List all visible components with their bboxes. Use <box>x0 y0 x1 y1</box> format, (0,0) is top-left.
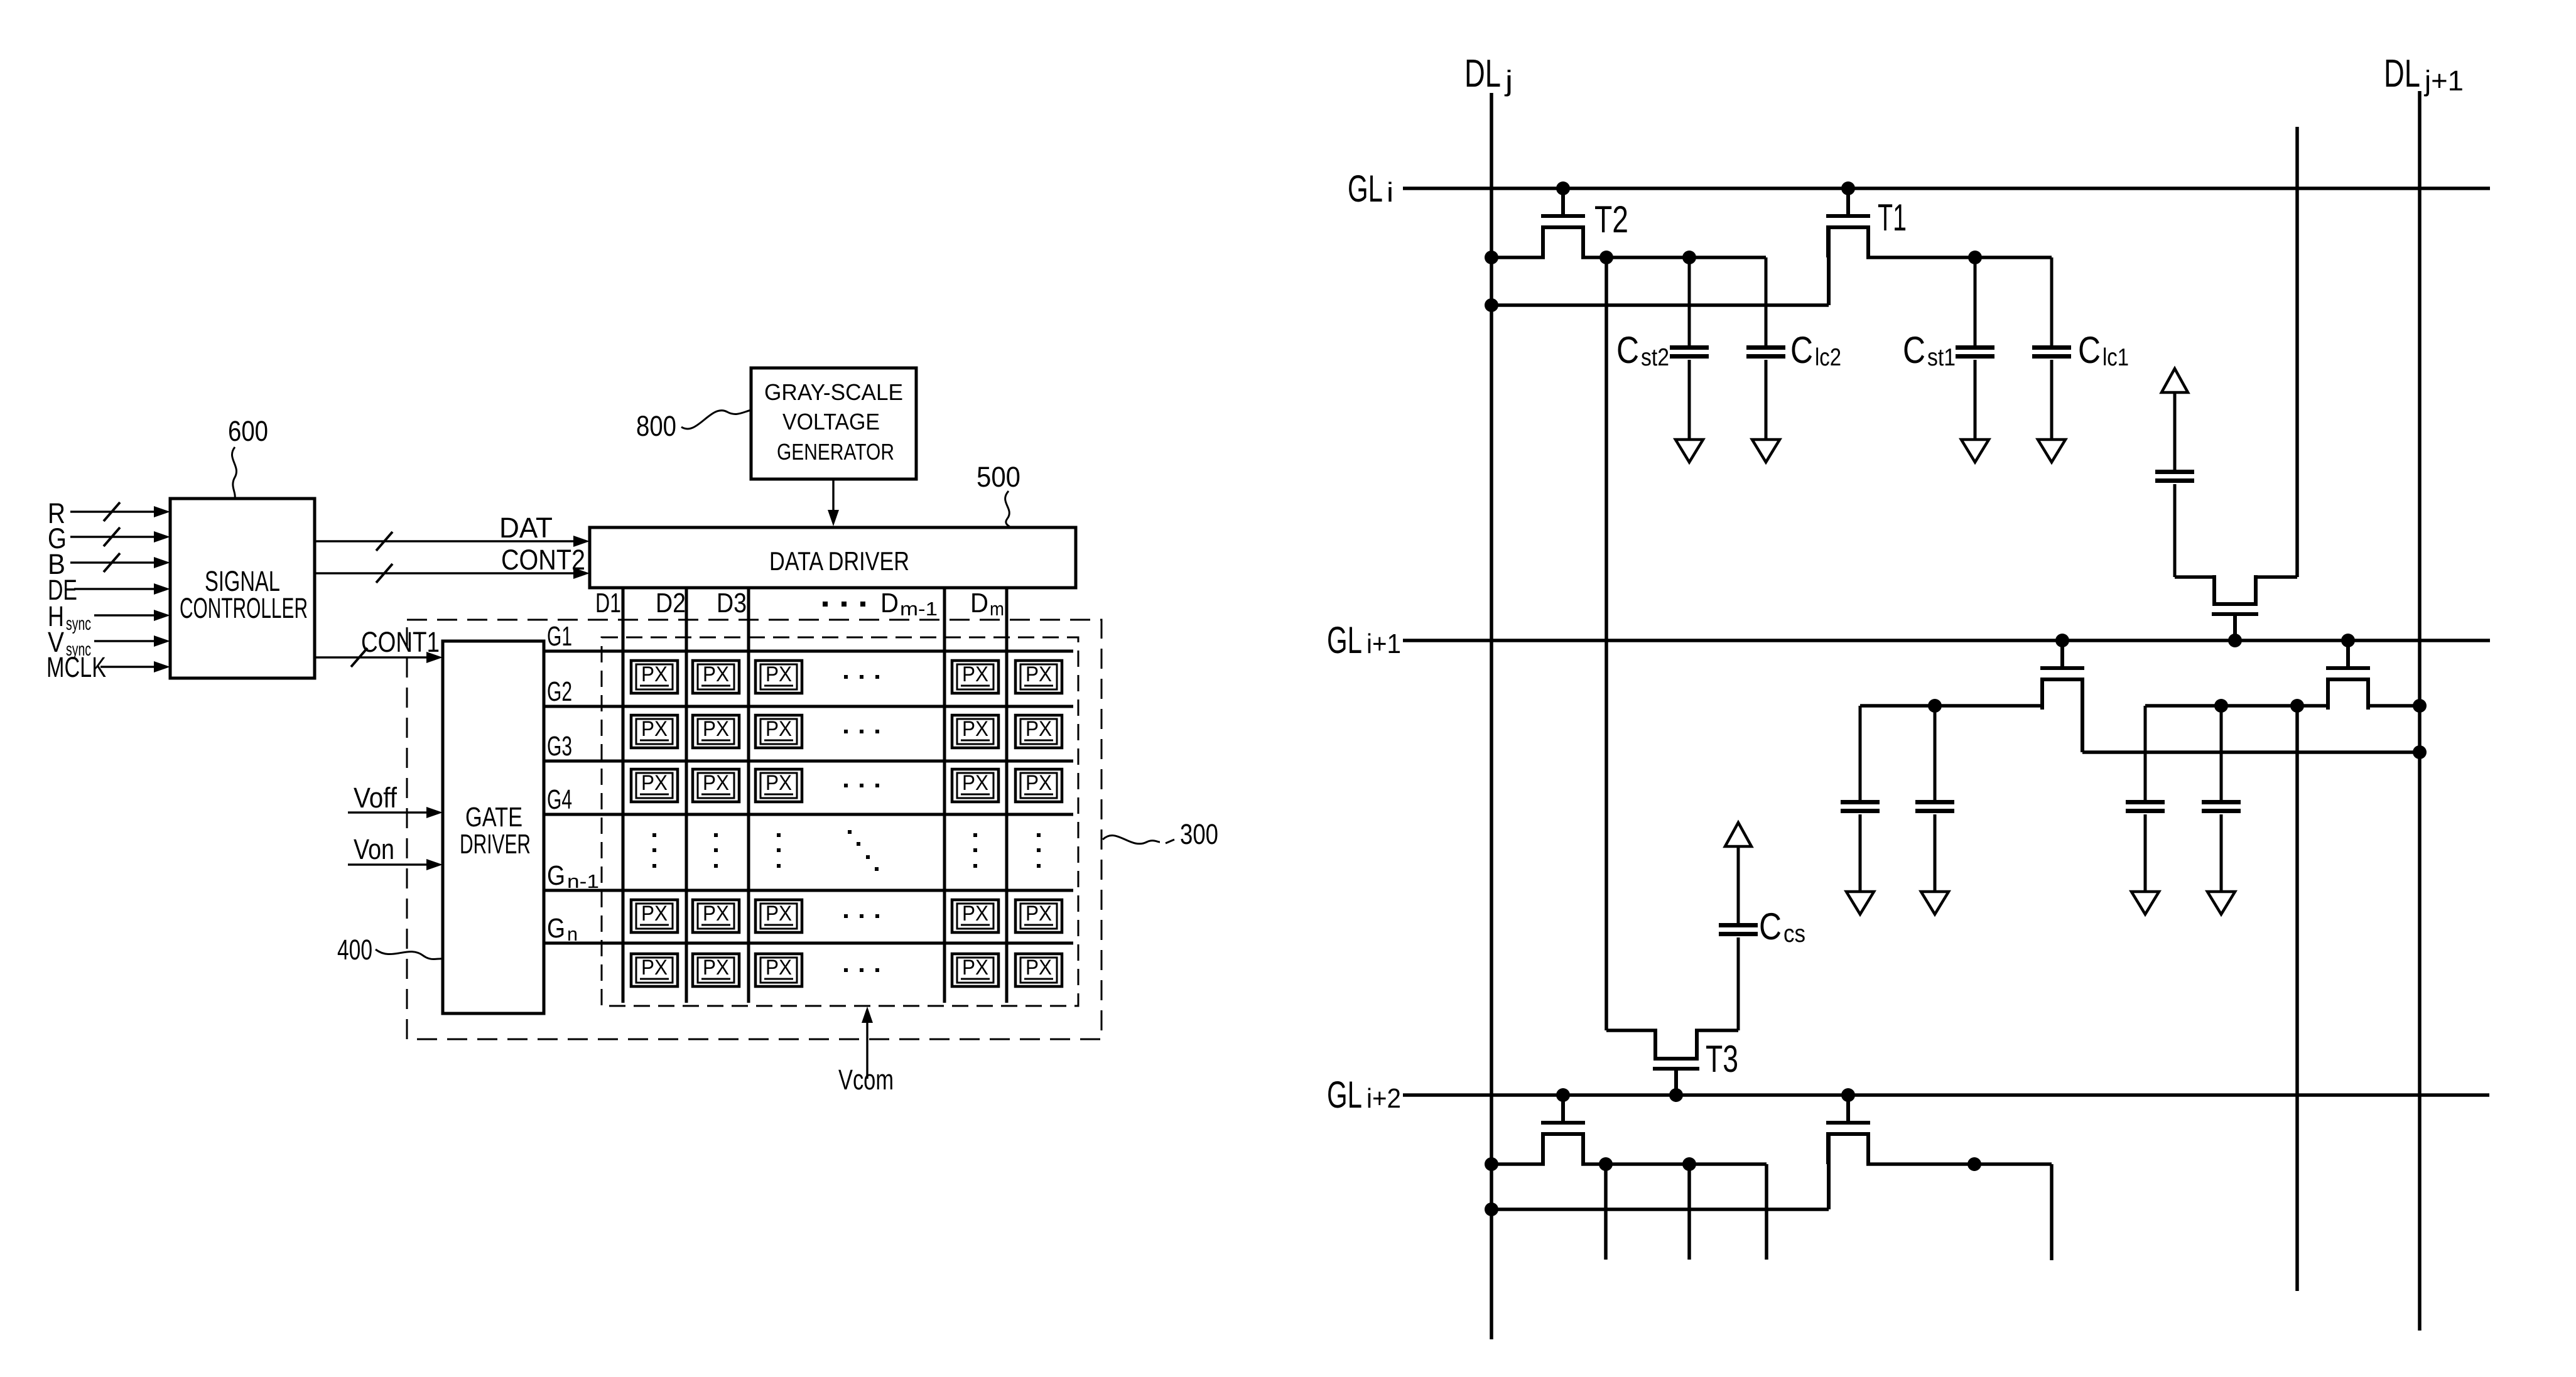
svg-text:PX: PX <box>703 902 729 926</box>
node dot mirrored transistor gate on GLi+1 <box>2228 634 2242 647</box>
svg-text:lc1: lc1 <box>2102 344 2129 371</box>
transistor above GLi+1 right column (mirrored) <box>2233 616 2237 640</box>
transistor T3 <box>1674 1071 1678 1095</box>
wire T3 right terminal <box>1695 1029 1738 1032</box>
svg-text:Voff: Voff <box>354 782 397 814</box>
pixel PX row1 col2 <box>693 661 739 693</box>
wire T1 drain to Clc1 <box>1866 256 2052 259</box>
ellipsis between D3 and Dm-1 <box>823 602 828 607</box>
svg-text:D: D <box>880 588 899 618</box>
leader squiggle 300 <box>1103 836 1160 844</box>
gate line G2 wire <box>544 705 1073 708</box>
svg-text:st1: st1 <box>1927 344 1956 371</box>
svg-text:400: 400 <box>337 934 372 966</box>
svg-text:D3: D3 <box>717 588 747 618</box>
pixel PX row4 col3 <box>755 900 802 932</box>
svg-text:PX: PX <box>962 902 988 926</box>
pixel PX row2 col4 <box>952 715 998 748</box>
svg-text:C: C <box>1759 905 1782 948</box>
data line Dm wire <box>1005 587 1009 1003</box>
node dot cap tap right <box>2214 699 2228 713</box>
svg-text:GRAY-SCALE: GRAY-SCALE <box>764 379 903 405</box>
svg-text:PX: PX <box>962 662 988 686</box>
wire Voff into gate driver <box>348 811 427 813</box>
wire right transistor source leg down <box>1827 1134 1831 1209</box>
wire left-column i+1 source to DLj+1 <box>2082 750 2420 754</box>
wire pixel node vertical to T3 <box>1605 257 1608 1030</box>
column ellipsis dots col4 <box>973 833 977 837</box>
svg-text:i: i <box>1387 177 1394 208</box>
pixel PX row5 col3 <box>755 954 802 986</box>
svg-text:DL: DL <box>1464 52 1501 95</box>
wire DLj to T1 source lower <box>1491 303 1829 307</box>
wire DLj to GLi+2 transistor source <box>1491 1162 1545 1166</box>
capacitor lc left-column i+1 <box>1934 706 1937 800</box>
row ellipsis dots row3 <box>844 784 848 787</box>
node dot gate on GLi+2 left <box>1556 1088 1570 1102</box>
node dot bottom cap tap <box>1682 1157 1696 1171</box>
pixel PX row2 col5 <box>1015 715 1062 748</box>
svg-text:C: C <box>2078 329 2101 371</box>
pixel PX row4 col1 <box>631 900 678 932</box>
svg-text:PX: PX <box>703 771 729 795</box>
wire T3 left terminal <box>1606 1029 1657 1032</box>
svg-text:G1: G1 <box>547 621 572 652</box>
transistor at GLi+2 right <box>1846 1095 1850 1121</box>
svg-text:C: C <box>1616 329 1639 371</box>
gate line GLi wire <box>1403 186 2490 190</box>
node dot on DLj+1 upper <box>2413 699 2427 713</box>
wire DLj to T2 source <box>1491 256 1545 259</box>
bus slash on B line <box>104 553 120 572</box>
svg-text:D1: D1 <box>595 588 621 618</box>
svg-text:PX: PX <box>641 662 668 686</box>
node dot DLj upper <box>1485 251 1498 264</box>
pixel PX row1 col1 <box>631 661 678 693</box>
pixel PX row5 col4 <box>952 954 998 986</box>
wire GLi+2 right transistor drain <box>1866 1162 2052 1166</box>
svg-text:PX: PX <box>1026 902 1052 926</box>
gate line G4 wire <box>544 813 1073 816</box>
capacitor lc right-column i+1 <box>2144 706 2147 800</box>
leader squiggle 600 <box>232 447 236 498</box>
ground symbol <box>1921 892 1949 914</box>
svg-text:G2: G2 <box>547 676 572 707</box>
column ellipsis dots col1 <box>652 833 656 837</box>
svg-text:GATE: GATE <box>465 802 522 833</box>
gate driver U400 box <box>443 641 544 1013</box>
wire CONT1 signal-controller to gate-driver <box>315 656 427 658</box>
data driver U500 box <box>590 527 1076 588</box>
ground below Cst2 <box>1675 440 1703 462</box>
svg-text:j+1: j+1 <box>2423 65 2464 97</box>
node dot T2 gate on GLi <box>1556 181 1570 195</box>
svg-text:m: m <box>990 598 1004 620</box>
stub wire bottom cap 2 <box>1765 1164 1768 1260</box>
wire input R into signal controller <box>70 510 156 512</box>
node dot T3 gate on GLi+2 <box>1669 1088 1683 1102</box>
leader squiggle 800 <box>681 410 751 429</box>
svg-text:CONT1: CONT1 <box>361 626 440 658</box>
svg-text:PX: PX <box>1026 956 1052 980</box>
node dot DLj lower <box>1485 298 1498 312</box>
wire left-column i+1 drain to caps <box>1860 704 2044 708</box>
svg-text:G3: G3 <box>547 731 572 762</box>
gate line GLi+2 wire <box>1403 1093 2489 1097</box>
pixel PX row3 col5 <box>1015 769 1062 802</box>
svg-text:st2: st2 <box>1641 344 1669 371</box>
bus slash on DAT <box>376 532 392 551</box>
pixel PX row1 col3 <box>755 661 802 693</box>
svg-text:lc2: lc2 <box>1815 344 1841 371</box>
wire input B into signal controller <box>70 561 156 563</box>
pixel PX row2 col2 <box>693 715 739 748</box>
gate line Gn-1 wire <box>544 889 1073 892</box>
wire T2 drain to pixel node <box>1581 256 1766 259</box>
arrow to common electrode above Ccs <box>1725 823 1751 846</box>
svg-text:PX: PX <box>1026 771 1052 795</box>
capacitor Clc2 <box>1765 257 1768 345</box>
svg-text:PX: PX <box>766 771 792 795</box>
svg-text:m-1: m-1 <box>900 598 938 620</box>
column ellipsis dots col2 <box>714 833 718 837</box>
svg-text:i+2: i+2 <box>1366 1083 1401 1114</box>
svg-text:T3: T3 <box>1706 1038 1738 1080</box>
svg-text:G: G <box>547 913 565 944</box>
svg-text:cs: cs <box>1783 921 1805 948</box>
svg-text:GL: GL <box>1327 619 1362 661</box>
svg-text:CONT2: CONT2 <box>501 544 585 576</box>
pixel PX row4 col4 <box>952 900 998 932</box>
svg-text:PX: PX <box>641 771 668 795</box>
svg-text:PX: PX <box>962 956 988 980</box>
arrow Vcom into array <box>866 1022 868 1079</box>
svg-text:GL: GL <box>1348 168 1383 210</box>
svg-text:DL: DL <box>2384 52 2420 95</box>
leader squiggle 500 <box>1005 491 1010 527</box>
signal controller U600 box <box>170 499 315 678</box>
pixel PX row3 col2 <box>693 769 739 802</box>
svg-text:PX: PX <box>962 771 988 795</box>
gate line GLi+1 wire <box>1403 639 2490 642</box>
node dot cap tap <box>1928 699 1942 713</box>
inner dashed boundary of pixel array <box>602 637 1078 1006</box>
column ellipsis dots col5 <box>1037 833 1041 837</box>
outer dashed boundary 300 of panel <box>407 620 1101 1039</box>
ground below Clc2 <box>1752 440 1780 462</box>
svg-text:G4: G4 <box>547 784 572 815</box>
svg-text:DATA DRIVER: DATA DRIVER <box>769 546 909 576</box>
node dot DLj bottom lower <box>1485 1202 1498 1216</box>
node dot T1 gate on GLi <box>1841 181 1855 195</box>
svg-text:j: j <box>1504 65 1513 97</box>
svg-text:C: C <box>1790 329 1813 371</box>
svg-text:C: C <box>1903 329 1925 371</box>
svg-text:CONTROLLER: CONTROLLER <box>180 592 308 624</box>
pixel PX row5 col2 <box>693 954 739 986</box>
bus slash on G line <box>104 527 120 546</box>
ground symbol <box>1846 892 1874 914</box>
capacitor of row-i right pixel <box>2173 484 2177 577</box>
wire DAT signal-controller to data-driver <box>315 540 574 542</box>
svg-text:300: 300 <box>1180 818 1218 850</box>
svg-text:D2: D2 <box>656 588 686 618</box>
svg-text:PX: PX <box>703 717 729 741</box>
svg-text:PX: PX <box>766 662 792 686</box>
capacitor Cst2 <box>1688 257 1691 345</box>
svg-text:T1: T1 <box>1878 197 1907 239</box>
svg-text:D: D <box>970 588 988 618</box>
capacitor storage right-column i+1 <box>2220 706 2223 800</box>
row ellipsis dots row1 <box>844 675 848 679</box>
wire DLj lower to GLi+2 right transistor <box>1491 1207 1829 1211</box>
row ellipsis dots row4 <box>844 914 848 918</box>
node dot on DLj+1 lower <box>2413 745 2427 759</box>
bus slash on R line <box>104 502 120 521</box>
ground symbol <box>2207 892 2235 914</box>
bus slash on CONT1 <box>351 648 367 667</box>
transistor at GLi+2 left <box>1561 1095 1565 1121</box>
node dot Cst1 tap <box>1968 251 1982 264</box>
transistor at GLi+1 right column <box>2346 640 2350 666</box>
pixel PX row3 col3 <box>755 769 802 802</box>
node dot pixel node vertical <box>1599 251 1613 264</box>
data line D2 wire <box>685 587 688 1003</box>
svg-text:Vcom: Vcom <box>838 1064 894 1096</box>
svg-text:G: G <box>547 860 565 891</box>
svg-text:PX: PX <box>641 956 668 980</box>
wire input Vsync into signal controller <box>94 640 156 642</box>
svg-text:600: 600 <box>228 415 268 447</box>
pixel PX row5 col5 <box>1015 954 1062 986</box>
pixel PX row2 col1 <box>631 715 678 748</box>
wire CONT2 signal-controller to data-driver <box>315 572 574 574</box>
node dot gate on GLi+1 left <box>2055 634 2069 647</box>
svg-text:DAT: DAT <box>499 512 553 544</box>
transistor T1 <box>1846 188 1850 214</box>
wire input Hsync into signal controller <box>94 614 156 616</box>
pixel PX row4 col5 <box>1015 900 1062 932</box>
wire input MCLK into signal controller <box>100 666 156 667</box>
wire T1 source leg down <box>1827 227 1831 305</box>
node dot gate on GLi+1 right <box>2341 634 2355 647</box>
svg-text:PX: PX <box>1026 717 1052 741</box>
data line DLj wire <box>1490 93 1493 1339</box>
capacitor Ccs <box>1737 937 1740 1030</box>
svg-text:DRIVER: DRIVER <box>460 829 531 860</box>
svg-text:PX: PX <box>703 662 729 686</box>
pixel PX row5 col1 <box>631 954 678 986</box>
wire right pixel node vertical upper <box>2295 127 2299 577</box>
svg-text:i+1: i+1 <box>1366 629 1401 659</box>
svg-text:PX: PX <box>766 902 792 926</box>
wire right-column i+1 source to DLj+1 <box>2366 704 2420 708</box>
data line D1 wire <box>622 587 625 1003</box>
wire mirrored transistor left terminal <box>2175 575 2216 579</box>
transistor T2 <box>1561 188 1565 214</box>
wire mirrored transistor right terminal <box>2254 575 2297 579</box>
svg-text:PX: PX <box>641 717 668 741</box>
gate line G1 wire <box>544 650 1073 653</box>
node dot bottom pixel vertical <box>1599 1157 1613 1171</box>
svg-text:MCLK: MCLK <box>46 651 106 683</box>
row ellipsis dots row2 <box>844 730 848 733</box>
svg-text:PX: PX <box>641 902 668 926</box>
svg-text:PX: PX <box>766 717 792 741</box>
stub wire bottom cap <box>1687 1164 1691 1260</box>
column ellipsis dots col3 <box>777 833 781 837</box>
transistor at GLi+1 left column <box>2060 640 2064 666</box>
svg-text:Von: Von <box>354 833 394 865</box>
gate line Gn wire <box>544 942 1073 945</box>
svg-text:GENERATOR: GENERATOR <box>777 439 894 465</box>
svg-text:VOLTAGE: VOLTAGE <box>782 409 880 435</box>
capacitor Cst1 <box>1974 257 1977 345</box>
capacitor storage left-column i+1 <box>1859 706 1862 800</box>
bus slash on CONT2 <box>376 564 392 583</box>
svg-text:500: 500 <box>977 461 1020 493</box>
ground below Cst1 <box>1961 440 1989 462</box>
node dot pixel vertical tap <box>2290 699 2304 713</box>
stub wire bottom pixel node <box>1604 1164 1608 1260</box>
stub wire bottom right cap <box>2050 1164 2054 1260</box>
svg-text:PX: PX <box>1026 662 1052 686</box>
pixel PX row2 col3 <box>755 715 802 748</box>
svg-text:PX: PX <box>766 956 792 980</box>
ground below Clc1 <box>2038 440 2065 462</box>
wire gray-scale generator to data driver with arrow <box>832 479 834 512</box>
ground symbol <box>2131 892 2159 914</box>
gate line G3 wire <box>544 760 1073 763</box>
svg-text:T2: T2 <box>1594 198 1628 240</box>
data line DLj+1 wire <box>2418 91 2422 1331</box>
wire input G into signal controller <box>70 536 156 537</box>
wire right-column i+1 drain to caps <box>2145 704 2330 708</box>
svg-text:PX: PX <box>962 717 988 741</box>
wire GLi+2 transistor drain right <box>1581 1162 1767 1166</box>
leader squiggle 400 <box>376 949 443 959</box>
data line D3 wire <box>747 587 750 1003</box>
pixel PX row4 col2 <box>693 900 739 932</box>
node dot gate on GLi+2 right <box>1841 1088 1855 1102</box>
node dot Cst2 tap <box>1682 251 1696 264</box>
wire input DE into signal controller <box>74 588 156 590</box>
capacitor Clc1 <box>2050 257 2054 345</box>
pixel PX row1 col5 <box>1015 661 1062 693</box>
arrow to common electrode right pixel <box>2162 369 2188 392</box>
svg-text:800: 800 <box>636 410 676 442</box>
node dot DLj bottom upper <box>1485 1157 1498 1171</box>
svg-text:PX: PX <box>703 956 729 980</box>
data line Dm-1 wire <box>943 587 946 1003</box>
pixel PX row3 col4 <box>952 769 998 802</box>
wire Von into gate driver <box>348 863 427 865</box>
pixel PX row3 col1 <box>631 769 678 802</box>
diagonal ellipsis dots <box>848 830 852 834</box>
svg-text:GL: GL <box>1327 1074 1362 1116</box>
node dot bottom Cst1 tap <box>1967 1157 1981 1171</box>
pixel PX row1 col4 <box>952 661 998 693</box>
svg-text:sync: sync <box>66 613 91 634</box>
wire left-column i+1 source leg down <box>2081 679 2084 752</box>
row ellipsis dots row5 <box>844 968 848 972</box>
wire right pixel node vertical lower <box>2295 706 2299 1291</box>
gray-scale voltage generator U800 box <box>751 368 916 479</box>
